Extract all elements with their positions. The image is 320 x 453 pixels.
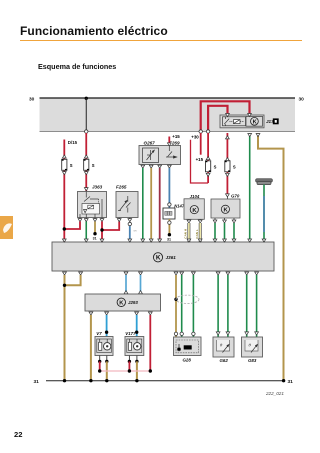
wire: N147 to terminal 31 (tan) [168, 219, 170, 235]
wire: J17 output to G70 (red) with fuse S [226, 133, 228, 194]
J104 pin arrows [187, 220, 191, 223]
svg-text:K: K [253, 119, 257, 125]
svg-text:+15: +15 [172, 134, 180, 139]
svg-text:31: 31 [34, 379, 40, 385]
fuse S (D/15) [62, 155, 66, 158]
subtitle [38, 62, 116, 71]
wire: V177 earth (tan) [136, 361, 138, 380]
svg-text:31: 31 [93, 237, 97, 241]
svg-text:S: S [70, 163, 73, 168]
wire: V177 to series resistor line (red) [128, 361, 130, 371]
J361 bottom pin arrows [63, 272, 67, 275]
wire: fuse to band (red) with fuse S [207, 133, 209, 183]
svg-text:30: 30 [299, 96, 305, 102]
svg-text:G83: G83 [248, 358, 257, 363]
svg-text:K: K [156, 255, 161, 262]
wire: J17 to J361 (green) [249, 133, 251, 242]
svg-text:CAN L: CAN L [195, 229, 199, 238]
pin stubs [79, 218, 81, 219]
sender G62 box [213, 337, 234, 357]
J17 pin arrows (top) [226, 114, 230, 117]
diagnostic connector bar [256, 179, 273, 182]
svg-text:F265: F265 [116, 185, 127, 190]
G267/F269 pin arrows (bottom) [141, 165, 145, 168]
svg-text:30: 30 [29, 96, 35, 102]
V7 pins (bottom) [99, 356, 101, 362]
orange side tab [0, 216, 13, 239]
wire: J363 pin3 stub (tan) to terminal 31 [94, 222, 96, 234]
thermo switch F265 box [116, 192, 138, 218]
valve N147 box [163, 208, 175, 219]
wire: G267 pin3 to J361 (maroon) [159, 168, 161, 242]
screened cable loop [176, 295, 199, 303]
wire: +30 feed to fuse (red thin) [191, 140, 209, 183]
J363 internal relay symbol [80, 192, 102, 218]
reference black square [273, 118, 279, 124]
wire: J293 pin4 (red) to series resistor line [149, 315, 151, 371]
svg-text:G267: G267 [144, 140, 156, 145]
junction on D/15 net [63, 227, 66, 230]
svg-text:J363: J363 [92, 185, 103, 190]
J17 relay contact/coil symbol [223, 117, 246, 126]
J361 top pin arrows [62, 239, 66, 242]
svg-text:G70: G70 [231, 194, 240, 199]
earth junctions [63, 379, 66, 382]
sender G83 box [242, 337, 263, 357]
wire: V7 to series resistor line (red) [99, 361, 101, 371]
orange rule [20, 40, 302, 42]
fuse S (J363 feed) [84, 155, 88, 158]
svg-text:D/15: D/15 [68, 140, 78, 145]
svg-text:S: S [233, 165, 236, 170]
G267 sender symbol [143, 148, 159, 163]
svg-text:J293: J293 [128, 300, 138, 305]
svg-text:CAN H: CAN H [184, 229, 188, 239]
svg-text:+30: +30 [191, 134, 199, 139]
engine speed sender G28 box [174, 337, 202, 356]
wire: J363 pin1 to D/15 net (red) [64, 222, 80, 230]
V177 pins (bottom) [128, 356, 130, 362]
wire: bus30 tap (black) [85, 98, 87, 132]
wire: bus30 drop to J363 (red) [85, 133, 87, 191]
wire: sensor shield (tan) [175, 275, 177, 337]
wires: J361 to J293 (light blue pair) [125, 275, 127, 294]
F269 switch symbol [166, 146, 177, 158]
F265 pin arrows (bottom) [117, 219, 121, 222]
title [20, 24, 168, 38]
relay J17 box [220, 115, 264, 128]
sender G267 / switch F269 box [139, 146, 181, 165]
wire: connector to J361 (green/blue) [263, 185, 265, 242]
wire: J361 earth pin2 (tan) joining pin1 [65, 275, 81, 285]
relay J363 box [78, 192, 107, 218]
wire: F265 pin2 to J361 (blue) [129, 226, 131, 242]
G70 pin arrows (bottom) [213, 220, 217, 223]
wires: G83 pair (green) [246, 275, 248, 337]
control unit J104 box [184, 199, 204, 220]
svg-text:31: 31 [288, 379, 294, 385]
wire: CAN low (yellow) [199, 223, 202, 242]
svg-text:S: S [214, 165, 217, 170]
svg-text:S: S [92, 163, 95, 168]
wire: J293 to V7 (blue) [106, 315, 108, 337]
J363 pin arrows (bottom) [78, 219, 82, 222]
J17 control unit circle K [246, 116, 263, 126]
wire: G267 pin1 to J361 (green) [142, 168, 144, 242]
wire: fan feed link (pink) [100, 370, 151, 372]
earth bus 31 [46, 380, 284, 382]
wire: J363 pin4 / F265 net (red) [102, 222, 119, 231]
fan V7 box [95, 337, 113, 356]
F265 internal thermo-switch symbol [118, 196, 131, 213]
svg-text:J104: J104 [190, 194, 200, 199]
wires: G70 to J361 (green x3) [214, 223, 216, 242]
svg-text:J361: J361 [166, 255, 177, 260]
wire: J293 earth (tan) to bus 31 [90, 315, 92, 381]
wire: +15 feed hook to J17 (outer, red) [201, 101, 250, 130]
svg-text:G28: G28 [183, 358, 192, 363]
control unit J293 box [85, 294, 161, 311]
wire: J17 pin3 to earth rail (tan) [258, 133, 284, 381]
control unit J361 box [52, 242, 274, 271]
wire: F269 pin to N147 (blue) [168, 168, 170, 208]
node on bus 30 [85, 97, 88, 100]
wire: J363 pin2 to J361 (green) [85, 222, 87, 242]
wire: J293 to V177 (blue) [136, 315, 138, 337]
image code [266, 391, 284, 396]
J293 bottom pin arrows [89, 312, 93, 315]
svg-text:V7: V7 [96, 331, 102, 336]
wire: CAN high (yellow) [187, 223, 190, 242]
wires: G62 pair (green) [217, 275, 219, 337]
wire: D/15 supply (red) [63, 140, 65, 242]
fan V177 box [125, 337, 144, 356]
air mass meter G70 box [211, 199, 240, 218]
svg-text:+15: +15 [196, 157, 204, 162]
page number [14, 430, 22, 439]
wire: V7 earth (tan) [106, 361, 108, 380]
svg-text:N147: N147 [174, 203, 185, 208]
connector on F265 sender wire [128, 222, 131, 225]
wire: +15 tail under band (red) [200, 133, 202, 155]
svg-text:V177: V177 [125, 331, 136, 336]
connector circles on band bottom [85, 130, 88, 133]
svg-text:G62: G62 [220, 358, 229, 363]
bus bar 30 band [40, 98, 296, 132]
wire: +30 fused hook to J17 (inner, red) [208, 106, 227, 131]
svg-text:31: 31 [167, 238, 171, 242]
wire: G267 pin2 to J361 (tan) [150, 168, 152, 242]
svg-text:ws: ws [134, 230, 138, 233]
wire: J361 earth pin1 (tan) to bus 31 [64, 275, 66, 381]
wires: G28 signal pair (green) [181, 275, 183, 337]
wire: +15 stub to F269 (red) [168, 137, 170, 144]
